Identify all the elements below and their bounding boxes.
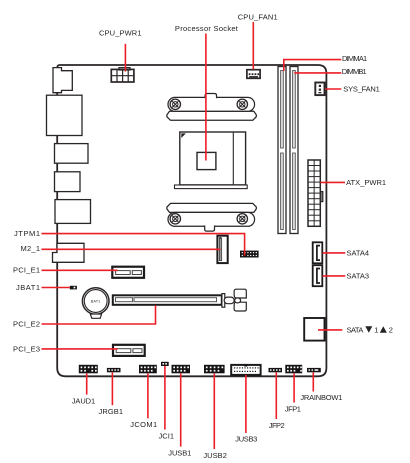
svg-text:JBAT1: JBAT1 bbox=[16, 283, 40, 292]
svg-text:CPU_FAN1: CPU_FAN1 bbox=[238, 13, 278, 22]
svg-text:CPU_PWR1: CPU_PWR1 bbox=[99, 29, 142, 38]
svg-text:JTPM1: JTPM1 bbox=[14, 229, 40, 238]
svg-text:JFP1: JFP1 bbox=[285, 404, 301, 413]
svg-text:JUSB1: JUSB1 bbox=[168, 449, 191, 458]
svg-text:SATA4: SATA4 bbox=[347, 249, 370, 258]
svg-text:JRAINBOW1: JRAINBOW1 bbox=[300, 393, 342, 402]
svg-text:2: 2 bbox=[389, 325, 393, 334]
svg-text:BAT1: BAT1 bbox=[91, 300, 101, 304]
svg-text:ATX_PWR1: ATX_PWR1 bbox=[346, 178, 386, 187]
svg-text:PCI_E1: PCI_E1 bbox=[13, 266, 40, 275]
svg-text:PCI_E2: PCI_E2 bbox=[13, 319, 40, 328]
svg-text:Processor Socket: Processor Socket bbox=[175, 24, 239, 33]
svg-text:JRGB1: JRGB1 bbox=[99, 407, 124, 416]
svg-text:M2_1: M2_1 bbox=[21, 244, 41, 253]
svg-text:PCI_E3: PCI_E3 bbox=[13, 344, 40, 353]
svg-text:1: 1 bbox=[374, 325, 378, 334]
svg-text:SATA3: SATA3 bbox=[347, 271, 370, 280]
svg-text:DIMMA1: DIMMA1 bbox=[342, 54, 367, 63]
svg-text:JFP2: JFP2 bbox=[269, 421, 285, 430]
svg-text:JCI1: JCI1 bbox=[159, 431, 175, 440]
svg-text:JUSB3: JUSB3 bbox=[235, 435, 257, 444]
svg-text:DIMMB1: DIMMB1 bbox=[342, 67, 367, 76]
svg-text:SATA: SATA bbox=[347, 325, 364, 334]
svg-text:JAUD1: JAUD1 bbox=[72, 396, 96, 405]
svg-text:SYS_FAN1: SYS_FAN1 bbox=[343, 84, 380, 93]
svg-text:JUSB2: JUSB2 bbox=[203, 451, 227, 460]
svg-text:JCOM1: JCOM1 bbox=[130, 420, 157, 429]
